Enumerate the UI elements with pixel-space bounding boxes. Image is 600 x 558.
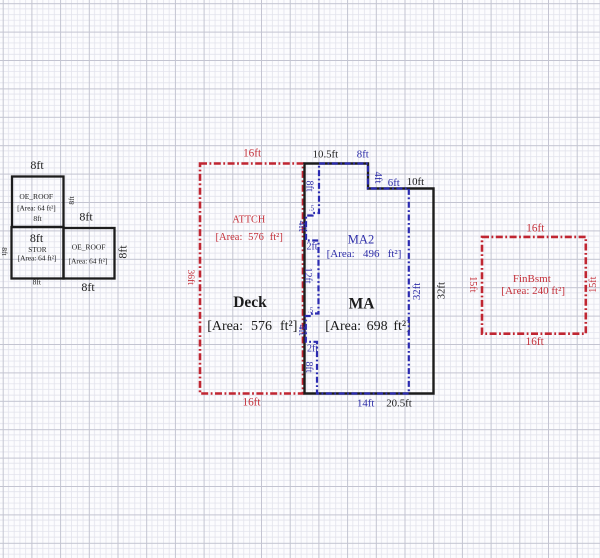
svg-text:ATTCH: ATTCH: [232, 214, 265, 225]
svg-text:32ft: 32ft: [436, 282, 448, 299]
svg-text:[Area: 64 ft²]: [Area: 64 ft²]: [69, 256, 108, 265]
svg-text:MA2: MA2: [348, 233, 374, 247]
svg-text:16ft: 16ft: [526, 223, 545, 235]
svg-text:8ft: 8ft: [357, 149, 369, 161]
svg-text:[Area: 576 ft²]: [Area: 576 ft²]: [216, 232, 283, 243]
svg-text:8ft: 8ft: [30, 231, 44, 245]
svg-text:16ft: 16ft: [242, 397, 261, 409]
room outline STOR square: [12, 227, 64, 279]
svg-text:20.5ft: 20.5ft: [386, 397, 412, 409]
svg-text:4ft: 4ft: [296, 324, 307, 335]
svg-text:36ft: 36ft: [185, 270, 196, 286]
svg-text:15ft: 15ft: [588, 276, 599, 292]
svg-text:8ft: 8ft: [116, 245, 130, 259]
svg-text:8ft: 8ft: [81, 280, 95, 294]
room outline OE_ROOF upper square: [12, 177, 64, 228]
svg-text:8ft: 8ft: [67, 195, 76, 204]
svg-text:FinBsmt: FinBsmt: [513, 273, 551, 285]
room outline FinBsmt red dash-dot rectangle: [482, 237, 586, 334]
svg-text:4ft: 4ft: [372, 172, 384, 184]
svg-text:12ft: 12ft: [302, 267, 313, 283]
svg-text:10.5ft: 10.5ft: [313, 149, 339, 161]
svg-text:[Area: 698 ft²]: [Area: 698 ft²]: [325, 319, 411, 334]
svg-text:Deck: Deck: [233, 294, 267, 311]
svg-text:.5: .5: [309, 205, 315, 213]
svg-text:10ft: 10ft: [407, 176, 424, 188]
svg-text:15ft: 15ft: [467, 276, 478, 292]
svg-text:8ft: 8ft: [33, 278, 42, 287]
svg-text:14ft: 14ft: [357, 397, 374, 409]
svg-text:6ft: 6ft: [388, 177, 400, 189]
svg-text:8ft: 8ft: [79, 210, 93, 224]
svg-text:[Area: 576 ft²]: [Area: 576 ft²]: [207, 319, 297, 334]
svg-text:[Area: 496 ft²]: [Area: 496 ft²]: [327, 248, 402, 260]
svg-text:4ft: 4ft: [296, 220, 307, 231]
svg-text:16ft: 16ft: [526, 336, 545, 348]
svg-text:16ft: 16ft: [243, 148, 262, 160]
room outline MA solid black polygon: [305, 164, 434, 394]
svg-text:[Area: 240 ft²]: [Area: 240 ft²]: [501, 285, 565, 297]
svg-text:OE_ROOF: OE_ROOF: [19, 192, 53, 201]
svg-text:[Area: 64 ft²]: [Area: 64 ft²]: [17, 204, 56, 213]
svg-text:8ft: 8ft: [304, 180, 315, 191]
svg-text:2ft: 2ft: [307, 344, 318, 355]
svg-text:2ft: 2ft: [306, 242, 317, 253]
room outline MA2 blue dash-dot polygon with jogged left wall: [306, 164, 409, 394]
svg-text:8ft: 8ft: [30, 158, 44, 172]
svg-text:.5: .5: [308, 307, 314, 315]
room outline OE_ROOF lower-right square: [64, 228, 115, 279]
svg-text:8ft: 8ft: [303, 361, 314, 372]
svg-text:8ft: 8ft: [0, 247, 9, 256]
svg-text:OE_ROOF: OE_ROOF: [72, 242, 106, 251]
svg-text:32ft: 32ft: [411, 283, 423, 300]
svg-text:8ft: 8ft: [33, 214, 42, 223]
svg-text:[Area: 64 ft²]: [Area: 64 ft²]: [18, 253, 57, 262]
svg-text:MA: MA: [349, 296, 376, 313]
room outline ATTCH/Deck red dash-dot rectangle: [200, 164, 303, 394]
